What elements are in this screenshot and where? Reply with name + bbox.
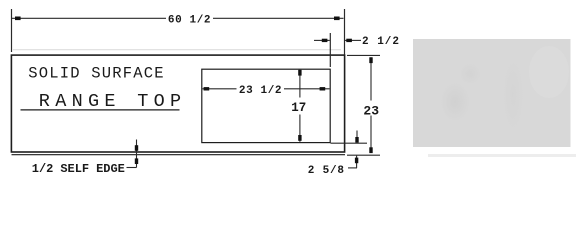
cooktop cutout rectangle (202, 69, 330, 142)
countertop outline rectangle (11, 55, 344, 152)
1/2 self edge : leader vertical line with two arrows (136, 140, 138, 168)
dimension 23 : top extension line (347, 54, 380, 56)
svg-text:RANGE TOP: RANGE TOP (39, 91, 187, 112)
faint backsplash line (13, 49, 341, 51)
dimension 60 1/2 : dimension line (12, 17, 167, 19)
dimension 2 5/8 : upper arrow pointing down (356, 131, 358, 143)
dimension 23 : bottom extension line (347, 154, 380, 156)
label RANGE TOP underline (21, 109, 180, 111)
1/2 self edge : leader horizontal (127, 167, 137, 169)
dimension 2 1/2 : left dimension line with right-pointing arrow (314, 39, 330, 41)
dimension 17 : bottom arrow (298, 135, 301, 141)
dimension 17 : top arrow (298, 70, 301, 76)
dimension 23 1/2 : dimension line inside cutout (203, 88, 237, 90)
dimension 17 : vertical dimension line (299, 70, 301, 98)
svg-text:SOLID SURFACE: SOLID SURFACE (28, 65, 165, 83)
dimension 23 : top arrow (369, 57, 372, 63)
self edge second bottom line (12, 154, 346, 156)
dimension 60 1/2 : right arrow (334, 17, 340, 21)
dimension 60 1/2 : left arrow (15, 17, 21, 21)
svg-text:2 5/8: 2 5/8 (308, 165, 345, 177)
svg-text:1/2 SELF EDGE: 1/2 SELF EDGE (32, 162, 125, 176)
dimension 2 1/2 : right dimension line with left-pointing arrow (345, 39, 361, 41)
svg-text:17: 17 (291, 101, 306, 115)
svg-text:2 1/2: 2 1/2 (362, 36, 400, 48)
svg-text:23: 23 (363, 103, 379, 118)
dimension 60 1/2 : extension line right (344, 9, 346, 55)
dimension 23 1/2 : left arrow (204, 87, 210, 90)
svg-text:23 1/2: 23 1/2 (239, 85, 282, 97)
photo (gray inset picture) (413, 39, 576, 157)
svg-text:60 1/2: 60 1/2 (168, 15, 211, 27)
dimension 2 5/8 : lower arrow pointing up (356, 156, 358, 168)
dimension 23 : vertical dimension line (370, 57, 372, 100)
dimension 23 1/2 : right arrow (320, 87, 326, 90)
dimension 2 5/8 : upper extension line (cutout bottom extended right) (331, 142, 368, 144)
dimension 60 1/2 : extension line left (11, 9, 13, 52)
dimension 2 5/8 : leader to text (348, 167, 357, 169)
dimension 23 : bottom arrow (369, 147, 372, 153)
dimension 2 1/2 : extension line (cutout right edge extended up) (329, 33, 331, 67)
